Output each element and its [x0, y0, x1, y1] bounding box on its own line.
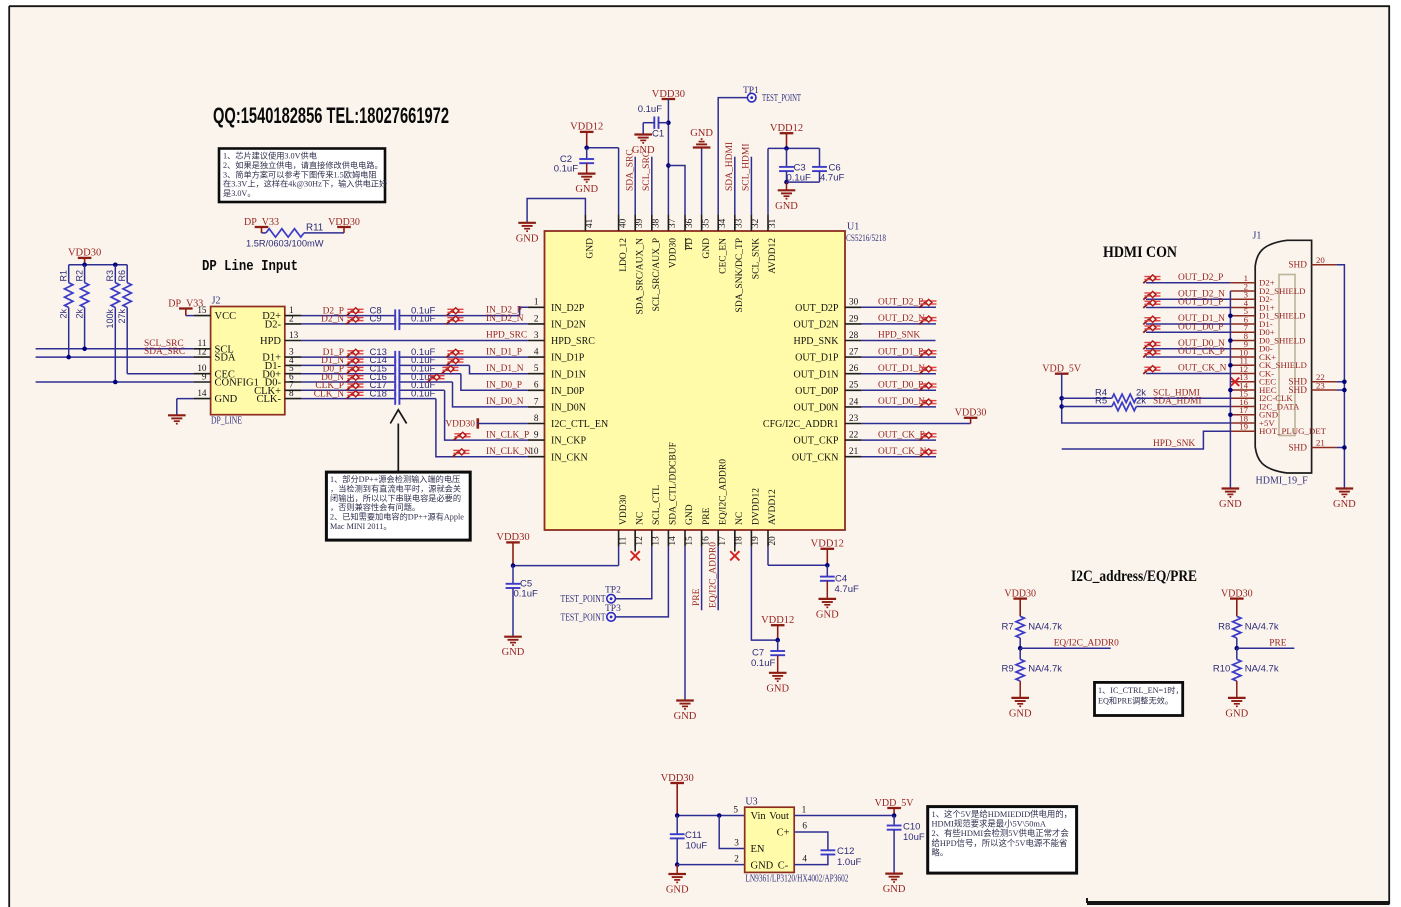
J1 pin 17 GND	[1230, 414, 1255, 416]
U1 pin 4 IN_D1P	[528, 356, 545, 358]
svg-text:给HPD信号，所以这个5V电源不能省: 给HPD信号，所以这个5V电源不能省	[932, 838, 1068, 848]
svg-text:CLK_N: CLK_N	[314, 389, 344, 399]
diff-pair icon D0_N	[346, 374, 363, 382]
wire SDA_CTL to TP3	[616, 547, 668, 617]
wire VDD30 to U1 pin11	[513, 565, 619, 567]
wire net HPD_SRC	[301, 340, 528, 342]
U1 pin 35 GND (top)	[701, 214, 703, 231]
svg-text:IN_CKP: IN_CKP	[551, 436, 586, 447]
svg-text:21: 21	[1316, 438, 1325, 448]
svg-text:3: 3	[534, 330, 539, 340]
resistor R4 2k	[1062, 397, 1112, 399]
wire J1 shield bus	[1229, 291, 1231, 488]
ground below SHD bus	[1336, 487, 1354, 489]
svg-text:SDA_SRC/AUX_N: SDA_SRC/AUX_N	[635, 238, 645, 315]
svg-text:VDD12: VDD12	[761, 615, 794, 626]
svg-text:2、有些HDMI会检测5V供电正常才会: 2、有些HDMI会检测5V供电正常才会	[932, 828, 1070, 838]
U1 pin 24 OUT_D0N	[845, 406, 862, 408]
J2 pin 13 HPD	[285, 340, 302, 342]
power VDD12 at C7	[771, 624, 785, 626]
U1 pin 27 OUT_D1P	[845, 356, 862, 358]
U1 pin 1 IN_D2P	[528, 306, 545, 308]
test point TP3	[607, 613, 616, 622]
svg-text:R9: R9	[1002, 664, 1014, 675]
svg-text:HPD_SRC: HPD_SRC	[486, 331, 527, 341]
wire CFG/I2C_ADDR1 to VDD30	[862, 423, 971, 425]
note box: 5V for HDMI EDID note	[928, 807, 1077, 874]
U1 pin 32 SCL_SNK (top)	[750, 214, 752, 231]
svg-text:GND: GND	[1009, 708, 1032, 719]
svg-text:35: 35	[700, 218, 710, 228]
svg-text:SDA_SNK/DC_TP: SDA_SNK/DC_TP	[735, 238, 745, 312]
test point TP2	[607, 594, 616, 603]
U1 pin 5 IN_D1N	[528, 373, 545, 375]
wire net OUT_D2_P (HDMI side)	[1146, 282, 1230, 284]
wire VDD30 to U3 Vin	[677, 815, 745, 817]
svg-text:1.5R/0603/100mW: 1.5R/0603/100mW	[246, 239, 324, 249]
svg-text:1: 1	[534, 297, 539, 307]
annotation arrow to series caps	[397, 424, 399, 474]
capacitor C17 0.1uF	[394, 384, 396, 396]
svg-text:4.7uF: 4.7uF	[835, 584, 859, 595]
svg-text:VDD30: VDD30	[68, 248, 101, 259]
svg-text:1、这个5V是给HDMIEDID供电用的，: 1、这个5V是给HDMIEDID供电用的，	[932, 809, 1073, 819]
svg-text:IN_D2N: IN_D2N	[551, 320, 586, 331]
wire U1 pin39 SDA_SRC stub	[634, 157, 636, 215]
svg-text:OUT_D0P: OUT_D0P	[795, 386, 839, 397]
resistor R2	[84, 265, 86, 283]
no-connect X at U1 pin18	[734, 530, 736, 552]
wire U1 pin16 PRE stub	[701, 547, 703, 611]
capacitor C16 0.1uF	[394, 376, 396, 388]
svg-text:SHD: SHD	[1288, 261, 1307, 271]
svg-text:OUT_CKP: OUT_CKP	[793, 436, 838, 447]
svg-text:3、简单方案可以参考下图传来1.5欧姆电阻: 3、简单方案可以参考下图传来1.5欧姆电阻	[223, 169, 377, 179]
diff-pair icon D1_P	[346, 349, 363, 357]
U1 pin 34 CEC_EN (top)	[717, 214, 719, 231]
svg-text:2k: 2k	[74, 309, 84, 319]
svg-text:OUT_D0_P: OUT_D0_P	[878, 381, 923, 391]
svg-text:QQ:1540182856 TEL:18027661972: QQ:1540182856 TEL:18027661972	[213, 103, 449, 128]
wire EN tie to Vin	[719, 816, 745, 849]
U1 pin 12 NC (bottom)	[634, 530, 636, 547]
wire net SCL_SRC	[36, 348, 194, 350]
wire IN_CLK_N to U1 pin10	[399, 398, 436, 400]
U1 pin 21 OUT_CKN	[845, 456, 862, 458]
svg-text:TEST_POINT: TEST_POINT	[561, 594, 606, 605]
svg-text:IN_D1N: IN_D1N	[551, 369, 586, 380]
wire net OUT_D0_P (HDMI side)	[1146, 331, 1230, 333]
U1 pin 9 IN_CKP	[528, 439, 545, 441]
diff-pair icon OUT_D0_N (HDMI)	[1143, 341, 1160, 349]
U1 pin 28 HPD_SNK	[845, 340, 862, 342]
svg-text:23: 23	[849, 413, 859, 423]
U1 pin 38 SCL_SRC/AUX_P (top)	[651, 214, 653, 231]
U1 pin 10 IN_CKN	[528, 456, 545, 458]
svg-text:R8: R8	[1218, 622, 1230, 633]
ground left of C1	[634, 133, 652, 135]
svg-text:SCL_SNK: SCL_SNK	[752, 238, 762, 279]
J2 pin 8 CLK-	[285, 398, 302, 400]
wire net OUT_CK_P	[862, 439, 936, 441]
svg-text:1: 1	[802, 805, 807, 815]
svg-text:C4: C4	[835, 574, 847, 585]
svg-text:Vin: Vin	[751, 811, 767, 822]
U1 pin 39 SDA_SRC/AUX_N (top)	[634, 214, 636, 231]
svg-text:OUT_D1_P: OUT_D1_P	[878, 347, 923, 357]
power VDD30 at U1 pin23	[964, 417, 978, 419]
svg-text:7: 7	[534, 396, 539, 406]
U1 pin 11 VDD30 (bottom)	[618, 530, 620, 547]
svg-text:CONFIG1: CONFIG1	[215, 378, 259, 389]
svg-text:闭输出，所以以下串联电容是必要的: 闭输出，所以以下串联电容是必要的	[330, 493, 461, 503]
svg-text:38: 38	[651, 218, 661, 228]
diff-pair icon OUT_D1_N	[919, 366, 936, 374]
wire IN_D2_N to U1 pin2	[399, 323, 528, 325]
svg-text:SCL_CTL: SCL_CTL	[652, 485, 662, 525]
svg-text:TEST_POINT: TEST_POINT	[762, 93, 801, 104]
J1 pin 3 D2-	[1230, 298, 1255, 300]
svg-text:EQ/I2C_ADDR0: EQ/I2C_ADDR0	[718, 459, 728, 525]
svg-text:39: 39	[634, 218, 644, 228]
wire R2 to SCL_SRC	[84, 308, 86, 349]
svg-text:SCL_SRC: SCL_SRC	[642, 151, 652, 191]
svg-text:1、IC_CTRL_EN=1时，: 1、IC_CTRL_EN=1时，	[1098, 685, 1184, 695]
svg-text:PRE: PRE	[692, 588, 702, 606]
svg-text:0.1uF: 0.1uF	[514, 589, 538, 600]
svg-text:OUT_D1_P: OUT_D1_P	[1178, 298, 1223, 308]
wire D0_P into capacitor C15	[301, 373, 395, 375]
U1 pin 20 AVDD12 (bottom)	[767, 530, 769, 547]
diff-pair icon OUT_CK_N	[919, 449, 936, 457]
capacitor C12 1.0uF	[821, 849, 836, 851]
U1 pin 40 LDO_12 (top)	[618, 214, 620, 231]
svg-text:NA/4.7k: NA/4.7k	[1245, 664, 1279, 675]
J1 pin 1 D2+	[1230, 282, 1255, 284]
svg-text:SDA_HDMI: SDA_HDMI	[725, 142, 735, 191]
svg-text:OUT_D2P: OUT_D2P	[795, 303, 839, 314]
svg-text:2、已知需要加电容的DP++源有Apple: 2、已知需要加电容的DP++源有Apple	[330, 512, 464, 522]
svg-text:17: 17	[717, 536, 727, 546]
wire IN_CLK_P to U1 pin9	[399, 389, 444, 391]
svg-text:IN_D0P: IN_D0P	[551, 386, 585, 397]
svg-text:SHD: SHD	[1288, 443, 1307, 453]
power VDD30 at U1 pin8 I2C_CTL_EN	[476, 418, 479, 428]
wire net OUT_D0_N (HDMI side)	[1146, 348, 1230, 350]
svg-text:SDA: SDA	[215, 353, 236, 364]
connector J1 HDMI_19_F shell	[1255, 240, 1311, 473]
svg-text:U1: U1	[847, 222, 859, 233]
J2 pin 1 D2+	[285, 315, 302, 317]
J2 pin 4 D1-	[285, 364, 302, 366]
svg-text:2: 2	[534, 313, 539, 323]
svg-text:5: 5	[534, 363, 539, 373]
svg-text:2: 2	[734, 854, 739, 864]
U1 pin 23 CFG/I2C_ADDR1	[845, 423, 862, 425]
ground below J1 shield bus	[1222, 487, 1240, 489]
power VDD12 at C4	[821, 548, 835, 550]
svg-text:OUT_D1N: OUT_D1N	[794, 369, 839, 380]
svg-text:9: 9	[534, 430, 539, 440]
svg-text:GND: GND	[1225, 708, 1248, 719]
wire net OUT_CK_N (HDMI side)	[1146, 373, 1230, 375]
svg-text:12: 12	[197, 347, 207, 357]
svg-text:NC: NC	[635, 512, 645, 525]
power VDD30 (pull-up rail)	[78, 257, 92, 259]
svg-text:VDD30: VDD30	[1004, 588, 1036, 599]
capacitor C8 0.1uF	[394, 309, 396, 321]
capacitor C11 10uF	[676, 816, 678, 835]
svg-text:VDD30: VDD30	[496, 532, 529, 543]
svg-text:8: 8	[534, 413, 539, 423]
ground below C10	[885, 872, 903, 874]
svg-text:GND: GND	[502, 647, 525, 658]
svg-text:R5: R5	[1095, 396, 1107, 407]
J1 pin 18 +5V	[1230, 422, 1255, 424]
wire AVDD12 to C4	[767, 547, 769, 566]
diff-pair icon OUT_D2_N (HDMI)	[1143, 291, 1160, 299]
svg-text:14: 14	[197, 388, 207, 398]
svg-text:OUT_D2N: OUT_D2N	[794, 320, 839, 331]
power VDD12 at C3/C6	[780, 132, 794, 134]
wire LDO_12 to C2	[587, 147, 619, 149]
wire R6 to CEC	[126, 308, 128, 374]
svg-text:IN_D1_P: IN_D1_P	[486, 347, 522, 357]
U1 pin 3 HPD_SRC	[528, 340, 545, 342]
svg-text:R6: R6	[117, 270, 127, 282]
J1 pin 16 I2C_DATA	[1230, 406, 1255, 408]
wire U1 pin33 SDA_HDMI stub	[734, 157, 736, 215]
diff-pair icon OUT_CK_N (HDMI)	[1143, 366, 1160, 374]
svg-text:10uF: 10uF	[903, 832, 925, 843]
svg-text:R11: R11	[306, 223, 323, 234]
svg-text:OUT_D2_P: OUT_D2_P	[878, 298, 923, 308]
wire net OUT_D1_P	[862, 356, 936, 358]
svg-text:TP1: TP1	[743, 86, 759, 96]
svg-text:2k: 2k	[58, 309, 68, 319]
svg-text:VDD12: VDD12	[770, 123, 803, 134]
svg-text:21: 21	[849, 446, 859, 456]
U1 pin 7 IN_D0N	[528, 406, 545, 408]
J2 pin 2 D2-	[285, 323, 302, 325]
diff-pair icon OUT_D0_P	[919, 382, 936, 390]
svg-text:OUT_CK_N: OUT_CK_N	[878, 447, 927, 457]
svg-text:VDD30: VDD30	[445, 420, 475, 430]
svg-text:NA/4.7k: NA/4.7k	[1245, 622, 1279, 633]
svg-text:4: 4	[534, 347, 539, 357]
svg-text:GND: GND	[575, 184, 598, 195]
svg-text:3: 3	[734, 838, 739, 848]
svg-text:25: 25	[849, 380, 859, 390]
svg-text:28: 28	[849, 330, 859, 340]
J1 pin 19 HOT_PLUG_DET	[1230, 430, 1255, 432]
svg-text:PRE: PRE	[1269, 638, 1286, 648]
svg-text:OUT_CK_P: OUT_CK_P	[878, 430, 925, 440]
wire net PRE	[1236, 638, 1238, 648]
wire net SCL_HDMI	[1136, 397, 1230, 399]
ground below C7	[769, 672, 787, 674]
svg-text:8: 8	[289, 388, 294, 398]
wire Vout to VDD_5V	[794, 815, 894, 817]
svg-text:33: 33	[734, 218, 744, 228]
power VDD30 divider EQ/I2C_ADDR0	[1013, 597, 1027, 599]
svg-text:C18: C18	[370, 388, 387, 399]
wire net EQ/I2C_ADDR0	[1019, 638, 1021, 648]
svg-text:NC: NC	[735, 512, 745, 525]
capacitor C1 0.1uF	[653, 117, 655, 129]
resistor R9 NA/4.7k	[1019, 648, 1021, 659]
svg-text:OUT_D2_N: OUT_D2_N	[878, 314, 925, 324]
J2 pin 11 SCL	[194, 348, 211, 350]
U1 pin 29 OUT_D2N	[845, 323, 862, 325]
wire net CONFIG1	[36, 381, 194, 383]
resistor R3	[114, 265, 116, 283]
svg-text:HPD_SNK: HPD_SNK	[1153, 439, 1195, 449]
svg-text:Mac MINI 2011。: Mac MINI 2011。	[330, 522, 392, 531]
svg-text:11: 11	[617, 536, 627, 545]
wire net CEC	[127, 373, 193, 375]
power VDD30 at C5	[506, 541, 520, 543]
capacitor C18 0.1uF	[394, 392, 396, 404]
svg-text:CS5216/5218: CS5216/5218	[846, 234, 886, 244]
svg-text:VDD12: VDD12	[811, 539, 844, 550]
svg-text:32: 32	[750, 218, 760, 228]
wire D2_N into capacitor C9	[301, 323, 395, 325]
diff-pair icon OUT_D2_P (HDMI)	[1143, 275, 1160, 283]
wire D2_P into capacitor C8	[301, 315, 395, 317]
svg-text:略。: 略。	[932, 847, 949, 857]
svg-text:CFG/I2C_ADDR1: CFG/I2C_ADDR1	[763, 419, 839, 430]
svg-text:19: 19	[1239, 422, 1248, 432]
diff-pair icon OUT_D1_P (HDMI)	[1143, 300, 1160, 308]
note box: IC_CTRL_EN EQ/PRE note	[1095, 682, 1183, 715]
svg-text:HPD_SNK: HPD_SNK	[878, 331, 920, 341]
svg-text:GND: GND	[516, 233, 539, 244]
ground at J2 pin14	[177, 398, 194, 400]
svg-text:15: 15	[684, 536, 694, 546]
wire net OUT_CK_N	[862, 456, 936, 458]
svg-text:CLK-: CLK-	[257, 394, 282, 405]
svg-text:OUT_D2_P: OUT_D2_P	[1178, 273, 1223, 283]
ground at U1 pin15	[684, 547, 686, 701]
wire U1 pin32 SCL_HDMI stub	[750, 157, 752, 215]
capacitor C4 4.7uF	[826, 565, 828, 576]
svg-text:IN_D0_P: IN_D0_P	[486, 381, 522, 391]
svg-text:37: 37	[667, 218, 677, 228]
svg-text:HDMI CON: HDMI CON	[1103, 244, 1177, 261]
J2 pin 10 CEC	[194, 373, 211, 375]
J2 pin 5 D0+	[285, 373, 302, 375]
connector J2 DP_LINE body	[211, 307, 285, 415]
svg-text:SDA_CTL/DDCBUF: SDA_CTL/DDCBUF	[669, 442, 679, 525]
svg-text:IN_D2P: IN_D2P	[551, 303, 585, 314]
note box: 3.0V supply recommendation	[219, 149, 385, 203]
svg-text:AVDD12: AVDD12	[768, 489, 778, 525]
svg-text:24: 24	[849, 396, 859, 406]
wire net OUT_D1_P (HDMI side)	[1146, 307, 1230, 309]
svg-text:IN_D0_N: IN_D0_N	[486, 397, 524, 407]
U1 pin 15 GND (bottom)	[684, 530, 686, 547]
svg-text:GND: GND	[215, 394, 238, 405]
J1 pin 5 D1_SHIELD	[1230, 315, 1255, 317]
resistor R5 2k	[1062, 406, 1112, 408]
wire VDD_5V feed	[1062, 374, 1231, 423]
svg-text:GND: GND	[775, 201, 798, 212]
power VDD30 at C11	[670, 782, 684, 784]
power VDD12 at C2	[580, 131, 594, 133]
svg-text:SDA_SRC: SDA_SRC	[144, 347, 185, 357]
svg-text:40: 40	[617, 218, 627, 228]
no-connect X at J1 pin13 CEC	[1231, 378, 1239, 386]
svg-text:HDMI规范要求是最小5V\50mA: HDMI规范要求是最小5V\50mA	[932, 819, 1046, 829]
J2 pin 12 SDA	[194, 356, 211, 358]
diff-pair icon OUT_D0_N	[919, 399, 936, 407]
svg-text:14: 14	[667, 536, 677, 546]
wire net OUT_D0_N	[862, 406, 936, 408]
svg-text:C7: C7	[752, 648, 764, 659]
svg-text:VDD_5V: VDD_5V	[1042, 364, 1082, 375]
svg-text:OUT_CKN: OUT_CKN	[792, 452, 839, 463]
svg-text:26: 26	[849, 363, 859, 373]
svg-text:GND: GND	[883, 884, 906, 895]
wire net HPD_SNK to J1 pin19	[1062, 431, 1231, 449]
svg-text:IN_D1_N: IN_D1_N	[486, 364, 524, 374]
wire IN_D0_N to U1 pin7	[399, 381, 452, 383]
svg-text:IN_D0N: IN_D0N	[551, 403, 586, 414]
svg-text:EQ/I2C_ADDR0: EQ/I2C_ADDR0	[709, 542, 719, 608]
svg-text:2、如果是独立供电，请直接修改供电电路。: 2、如果是独立供电，请直接修改供电电路。	[223, 160, 383, 170]
svg-text:OUT_D0_P: OUT_D0_P	[1178, 322, 1223, 332]
svg-text:DP Line Input: DP Line Input	[202, 258, 298, 275]
svg-text:VDD30: VDD30	[1221, 588, 1253, 599]
svg-text:D2-: D2-	[265, 320, 282, 331]
U1 pin 17 EQ/I2C_ADDR0 (bottom)	[717, 530, 719, 547]
svg-text:NA/4.7k: NA/4.7k	[1028, 664, 1062, 675]
svg-text:IN_CLK_P: IN_CLK_P	[486, 430, 529, 440]
svg-text:R2: R2	[74, 270, 84, 282]
svg-text:HPD: HPD	[260, 336, 281, 347]
svg-text:I2C_CTL_EN: I2C_CTL_EN	[551, 419, 608, 430]
svg-text:VDD30: VDD30	[328, 217, 360, 228]
svg-text:GND: GND	[702, 238, 712, 259]
svg-text:VDD30: VDD30	[955, 408, 987, 419]
J1 pin 23 SHD	[1312, 389, 1337, 391]
diff-pair icon OUT_D1_P	[919, 349, 936, 357]
power VDD30 (R11 right)	[337, 226, 351, 228]
svg-text:GND: GND	[1219, 499, 1242, 510]
svg-text:SCL_SRC/AUX_P: SCL_SRC/AUX_P	[652, 238, 662, 311]
wire IN_D1_P to U1 pin4	[399, 356, 528, 358]
ground below C2	[578, 173, 596, 175]
J2 pin 9 CONFIG1	[194, 381, 211, 383]
no-connect X at U1 pin12	[634, 530, 636, 552]
wire PD tie to VDD30	[668, 166, 685, 215]
svg-text:GND: GND	[586, 238, 596, 259]
svg-text:是3.0V。: 是3.0V。	[223, 189, 256, 198]
svg-text:OUT_D0_N: OUT_D0_N	[878, 397, 925, 407]
ground below C3	[786, 182, 788, 190]
svg-text:4: 4	[802, 854, 807, 864]
svg-text:C11: C11	[685, 830, 702, 841]
svg-text:23: 23	[1316, 380, 1325, 390]
wire net SDA_SRC	[36, 356, 194, 358]
wire CLK_N into capacitor C18	[301, 398, 395, 400]
wire net HPD_SNK	[862, 340, 936, 342]
svg-text:20: 20	[1316, 255, 1325, 265]
svg-text:，否则兼容性会有问题。: ，否则兼容性会有问题。	[330, 502, 420, 512]
wire net OUT_D0_P	[862, 389, 936, 391]
svg-text:C-: C-	[778, 860, 789, 871]
